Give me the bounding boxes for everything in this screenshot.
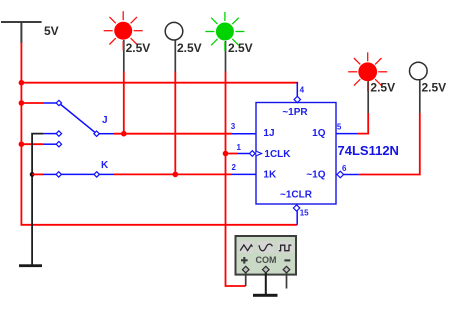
svg-text:1J: 1J <box>263 128 274 139</box>
junction K-probe2 <box>173 172 179 178</box>
pin 5 1Q stub <box>336 123 358 134</box>
wire LED1 drop <box>123 72 125 134</box>
svg-text:2.5V: 2.5V <box>177 41 202 55</box>
pin 2 1K stub <box>232 163 257 174</box>
probe X5 white unlit right <box>410 62 447 113</box>
FG sine wave button <box>258 242 274 253</box>
svg-text:2.5V: 2.5V <box>228 41 253 55</box>
svg-text:~1CLR: ~1CLR <box>280 190 313 201</box>
svg-text:2.5V: 2.5V <box>422 81 447 95</box>
power 5V source VCC <box>1 22 42 43</box>
wire bus to switch K top throw <box>21 143 43 145</box>
switch K <box>43 160 114 177</box>
wire switch J pole to 1J pin <box>114 133 232 135</box>
probe X4 red LED lit right <box>348 52 395 113</box>
wire ground junction to switch K bottom throw <box>32 173 43 175</box>
svg-text:1: 1 <box>237 143 242 152</box>
FG COM terminal <box>263 266 270 273</box>
pin 3 1J stub <box>231 122 256 134</box>
junction clock-1CLK <box>223 151 229 157</box>
ground symbol under FG <box>253 294 278 297</box>
svg-text:~1Q: ~1Q <box>306 170 325 181</box>
junction bus-preset <box>19 80 25 86</box>
FG minus label <box>284 259 290 261</box>
ground wire black from switch J lower throw <box>32 134 43 266</box>
function generator XFG1 body <box>236 236 297 275</box>
svg-text:~1PR: ~1PR <box>282 107 308 118</box>
wire bus to switch J top throw <box>21 102 43 104</box>
svg-text:74LS112N: 74LS112N <box>338 143 399 158</box>
FG plus label <box>241 257 248 264</box>
svg-text:2.5V: 2.5V <box>370 81 395 95</box>
switch J <box>43 100 114 147</box>
wire probe2 drop <box>174 72 176 175</box>
ground symbol left <box>19 264 42 267</box>
wire clock vertical from green LED down to function generator plus <box>226 72 246 287</box>
wire switch K pole to 1K pin <box>114 173 232 175</box>
probe X2 white unlit <box>165 22 201 71</box>
svg-text:1CLK: 1CLK <box>264 149 291 160</box>
wire ~1Q to white probe right <box>359 113 420 175</box>
wire left 5V bus vertical and clear row to pin15 <box>21 43 297 225</box>
FG COM stub to ground <box>265 273 267 295</box>
FG minus terminal <box>283 266 290 273</box>
svg-text:COM: COM <box>256 255 277 265</box>
svg-text:J: J <box>102 115 108 126</box>
svg-text:3: 3 <box>231 122 236 131</box>
svg-text:5: 5 <box>337 123 342 132</box>
svg-text:15: 15 <box>300 208 309 217</box>
FG square wave button <box>277 242 293 253</box>
svg-text:K: K <box>101 160 109 171</box>
junction bus-switchK <box>19 141 25 147</box>
probe X3 green LED lit <box>205 12 252 72</box>
pin 15 ~1CLR stub with bubble <box>293 205 309 225</box>
junction bus-switchJ <box>19 100 25 106</box>
pin 4 ~1PR stub <box>294 82 305 103</box>
svg-text:2.5V: 2.5V <box>126 41 151 55</box>
pin 1 1CLK stub with bubble and edge triangle <box>237 143 262 157</box>
svg-text:6: 6 <box>342 164 347 173</box>
op IC U1 74LS112N body <box>256 103 336 205</box>
wire 1Q to red LED right <box>358 113 369 134</box>
junction ground-switchK <box>30 172 35 177</box>
FG minus stub dangling <box>286 273 288 289</box>
svg-text:1Q: 1Q <box>312 128 326 139</box>
junction J-LED1 <box>121 131 127 137</box>
svg-text:1K: 1K <box>263 170 277 181</box>
pin 6 ~1Q stub with bubble <box>337 164 359 178</box>
FG plus terminal <box>242 266 249 273</box>
svg-text:2: 2 <box>232 163 237 172</box>
svg-text:4: 4 <box>300 86 305 95</box>
pin name labels inside U1 <box>263 107 325 201</box>
FG plus stub <box>245 273 247 286</box>
FG triangle wave button <box>239 242 254 253</box>
wire clock to 1CLK pin <box>226 153 238 155</box>
probe X1 red LED lit <box>104 11 151 71</box>
wire preset row horizontal to pin4 <box>21 82 298 84</box>
svg-text:5V: 5V <box>44 24 59 38</box>
